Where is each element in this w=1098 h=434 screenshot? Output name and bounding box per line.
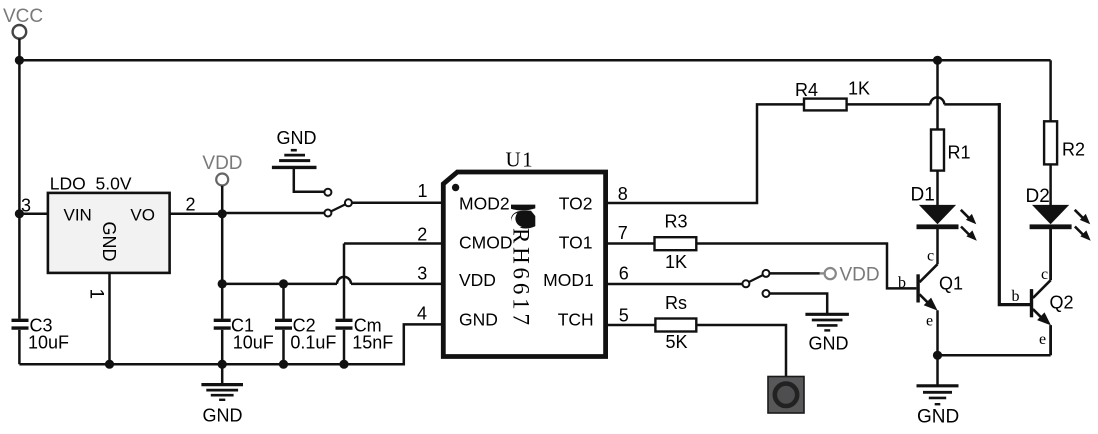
resistor R4 bbox=[795, 79, 870, 111]
wire LDO pin 3 bbox=[19, 213, 48, 216]
svg-text:D1: D1 bbox=[911, 185, 935, 206]
svg-text:10uF: 10uF bbox=[233, 333, 274, 353]
pin number 1 bbox=[418, 181, 428, 201]
wire R4 to Q2 base with hop over R1 column bbox=[847, 97, 1000, 104]
wire LDO pin 1 bbox=[108, 273, 111, 364]
diode D1 (LED) bbox=[911, 185, 977, 241]
pin number 3 bbox=[21, 195, 31, 215]
svg-text:VO: VO bbox=[130, 206, 155, 225]
svg-text:R2: R2 bbox=[1062, 140, 1085, 160]
pin number 4 bbox=[417, 304, 427, 324]
svg-text:VIN: VIN bbox=[64, 206, 92, 225]
svg-text:R1: R1 bbox=[948, 143, 971, 163]
net label VDD bbox=[202, 153, 242, 174]
wire IC pin8 TO2 to R4 bbox=[606, 104, 804, 203]
wire VDD column bbox=[221, 186, 224, 319]
pin number 5 bbox=[619, 306, 629, 326]
svg-text:RH6617: RH6617 bbox=[509, 228, 534, 329]
gray stub to VDD circle bbox=[820, 272, 825, 274]
wire IC pin6 MOD1 to switch bbox=[606, 283, 743, 286]
svg-text:1K: 1K bbox=[848, 79, 870, 99]
svg-text:MOD2: MOD2 bbox=[459, 194, 510, 214]
switch SW1 (MOD2 select) bbox=[324, 189, 352, 217]
wire VCC vertical bbox=[18, 39, 21, 319]
wire R3 to Q1 base bbox=[696, 244, 916, 289]
svg-text:5K: 5K bbox=[666, 332, 688, 352]
junction emitter rail bbox=[933, 351, 942, 360]
svg-text:c: c bbox=[927, 248, 934, 265]
junction rail Cm bbox=[339, 360, 348, 369]
wire switch lower throw to ground bbox=[770, 294, 828, 314]
wire IC pin7 TO1 to R3 bbox=[606, 242, 655, 245]
svg-text:1: 1 bbox=[418, 181, 428, 201]
junction VDD pin2 bbox=[218, 209, 227, 218]
wire bottom ground rail bbox=[19, 324, 443, 364]
svg-text:GND: GND bbox=[917, 407, 959, 428]
svg-text:3: 3 bbox=[417, 264, 427, 284]
capacitor C2 bbox=[275, 284, 336, 364]
wire IC pin5 TCH to Rs bbox=[606, 324, 656, 327]
junction top-left bbox=[15, 56, 24, 65]
push button S1 bbox=[768, 377, 804, 414]
wire R1 to D1 bbox=[936, 171, 939, 205]
node VCC terminal bbox=[13, 25, 27, 39]
svg-text:TCH: TCH bbox=[558, 309, 594, 329]
resistor R1 bbox=[931, 130, 971, 171]
resistor R2 bbox=[1044, 121, 1085, 164]
capacitor C3 bbox=[12, 316, 70, 365]
transistor Q1 bbox=[898, 248, 963, 356]
svg-text:Q2: Q2 bbox=[1050, 293, 1074, 313]
wire R4 node down to Q2 base (thick) bbox=[999, 103, 1030, 305]
wire Rs to push button bbox=[696, 325, 786, 377]
net label VDD right bbox=[840, 265, 880, 286]
svg-text:e: e bbox=[926, 313, 933, 330]
svg-text:GND: GND bbox=[459, 309, 498, 329]
ground symbol top (MOD2 switch) bbox=[272, 128, 324, 192]
wire switch to IC pin1 MOD2 bbox=[352, 202, 443, 205]
svg-text:1K: 1K bbox=[665, 252, 687, 272]
svg-text:10uF: 10uF bbox=[28, 333, 69, 353]
svg-text:Rs: Rs bbox=[665, 293, 687, 313]
svg-text:5: 5 bbox=[619, 306, 629, 326]
ground symbol bottom right bbox=[917, 355, 960, 427]
capacitor C1 bbox=[214, 316, 274, 365]
diode D2 (LED) bbox=[1026, 186, 1091, 241]
svg-text:15nF: 15nF bbox=[352, 333, 393, 353]
svg-text:2: 2 bbox=[186, 194, 196, 214]
U1 logo bbox=[511, 205, 535, 229]
svg-text:0.1uF: 0.1uF bbox=[290, 333, 336, 353]
junction rail LDO pin1 bbox=[105, 360, 114, 369]
svg-text:VDD: VDD bbox=[840, 265, 880, 286]
junction top rail R1 column bbox=[933, 56, 942, 65]
svg-text:CMOD: CMOD bbox=[459, 233, 512, 253]
transistor Q2 bbox=[1012, 266, 1074, 355]
svg-text:MOD1: MOD1 bbox=[543, 270, 594, 290]
pin number 3 bbox=[417, 264, 427, 284]
svg-text:b: b bbox=[898, 275, 906, 292]
wire emitter rail bottom right bbox=[938, 354, 1051, 357]
svg-text:7: 7 bbox=[618, 223, 628, 243]
svg-text:VDD: VDD bbox=[459, 270, 496, 290]
switch SW2 (MOD1 select) bbox=[742, 270, 769, 297]
svg-text:c: c bbox=[1041, 266, 1048, 283]
junction LDO pin3 bbox=[15, 209, 24, 218]
svg-text:1: 1 bbox=[86, 289, 107, 300]
svg-text:2: 2 bbox=[417, 225, 427, 245]
svg-text:Q1: Q1 bbox=[939, 274, 963, 294]
junction VDD branch bbox=[218, 279, 227, 288]
wire Cm to IC pin2 CMOD bbox=[344, 242, 443, 245]
wire switch to VDD terminal bbox=[770, 272, 820, 275]
wire R2 to D2 bbox=[1049, 164, 1052, 205]
node VDD terminal top bbox=[216, 174, 228, 186]
svg-text:LDO 5.0V: LDO 5.0V bbox=[50, 174, 132, 194]
junction branch C2 bbox=[279, 279, 288, 288]
node VDD terminal right bbox=[825, 268, 836, 279]
pin number 2 bbox=[417, 225, 427, 245]
pin number 7 bbox=[618, 223, 628, 243]
pin number 6 bbox=[619, 264, 629, 284]
junction rail C2 bbox=[279, 360, 288, 369]
U1 part number RH6617 (rotated) bbox=[509, 228, 534, 329]
svg-text:D2: D2 bbox=[1026, 186, 1050, 207]
svg-text:R4: R4 bbox=[795, 80, 818, 100]
junction rail C1 bbox=[218, 360, 227, 369]
svg-text:e: e bbox=[1039, 331, 1046, 348]
wire D2 to Q2 collector bbox=[1049, 229, 1052, 280]
op IC U1 RH6617 body bbox=[443, 148, 605, 357]
svg-text:U1: U1 bbox=[506, 148, 535, 172]
capacitor Cm bbox=[336, 244, 394, 365]
wire top rail bbox=[19, 59, 1050, 62]
wire LDO pin 2 bbox=[170, 213, 223, 216]
wire top rail right corner down to R2 bbox=[1049, 60, 1052, 121]
svg-text:6: 6 bbox=[619, 264, 629, 284]
pin number 8 bbox=[618, 184, 628, 204]
svg-text:TO2: TO2 bbox=[559, 194, 593, 214]
svg-text:GND: GND bbox=[203, 406, 243, 426]
svg-text:TO1: TO1 bbox=[559, 233, 593, 253]
svg-text:GND: GND bbox=[99, 222, 119, 262]
wire D1 to Q1 collector bbox=[936, 229, 939, 264]
wire VDD branch to IC pin3 with hop over Cm bbox=[222, 277, 443, 284]
resistor Rs bbox=[655, 293, 696, 352]
svg-text:R3: R3 bbox=[665, 212, 688, 232]
svg-text:VDD: VDD bbox=[202, 153, 242, 174]
ground symbol below C1 bbox=[201, 364, 243, 425]
pin number 2 bbox=[186, 194, 196, 214]
ground symbol MOD1 bbox=[805, 314, 849, 353]
svg-text:GND: GND bbox=[277, 128, 317, 148]
resistor R3 bbox=[655, 212, 697, 273]
svg-text:4: 4 bbox=[417, 304, 427, 324]
svg-text:8: 8 bbox=[618, 184, 628, 204]
regulator LDO 5.0V bbox=[48, 174, 170, 273]
svg-text:3: 3 bbox=[21, 195, 31, 215]
wire R1 column top bbox=[936, 60, 939, 129]
net label VCC bbox=[3, 6, 43, 27]
wire VDD junction to switch bbox=[222, 212, 324, 215]
svg-text:b: b bbox=[1012, 288, 1020, 305]
svg-text:GND: GND bbox=[809, 334, 849, 354]
pin number 1 (rotated) bbox=[86, 289, 107, 300]
svg-text:VCC: VCC bbox=[3, 6, 43, 27]
